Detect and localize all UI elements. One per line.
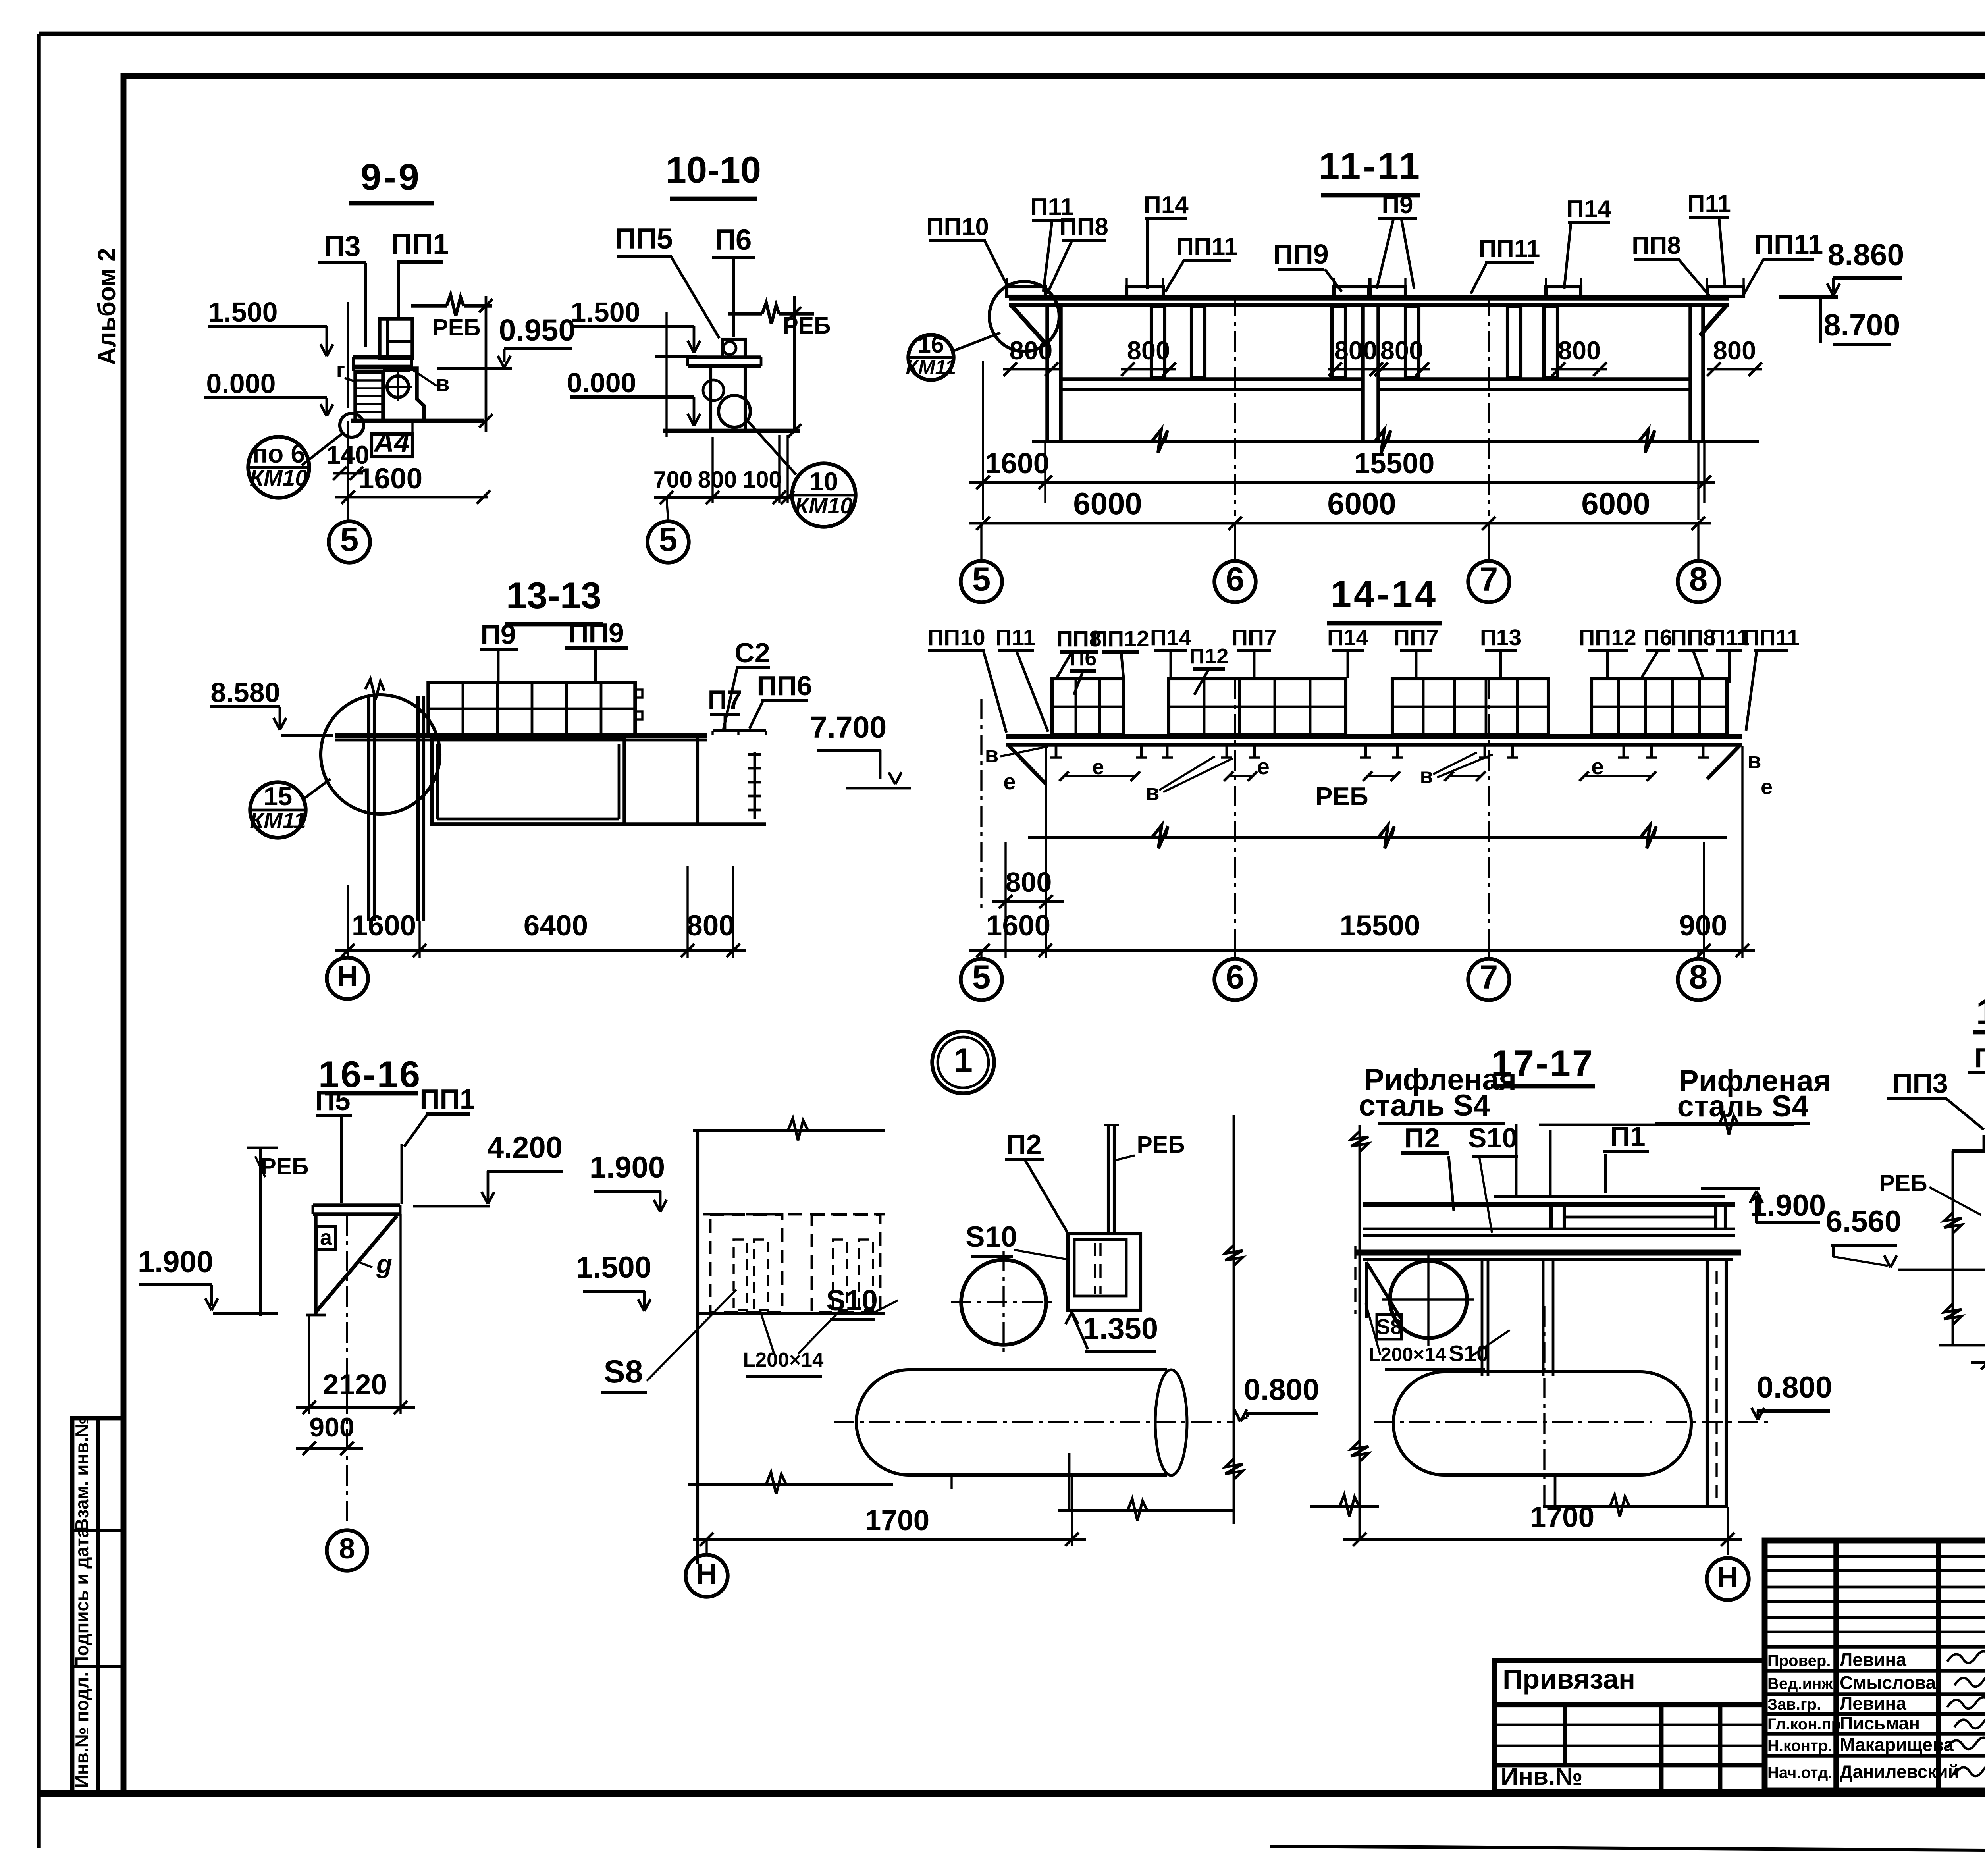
svg-text:1700: 1700: [865, 1504, 929, 1537]
svg-text:Н: Н: [696, 1558, 717, 1590]
svg-text:6000: 6000: [1073, 486, 1142, 521]
svg-text:КМ11: КМ11: [906, 356, 956, 378]
svg-text:16: 16: [918, 332, 944, 358]
svg-text:Смыслова: Смыслова: [1840, 1672, 1936, 1693]
svg-text:в: в: [436, 371, 449, 396]
svg-text:14-14: 14-14: [1331, 573, 1438, 615]
svg-text:6.560: 6.560: [1826, 1205, 1901, 1238]
svg-text:0.950: 0.950: [499, 313, 576, 347]
svg-text:1700: 1700: [1530, 1501, 1594, 1533]
svg-text:П13: П13: [1480, 625, 1521, 650]
svg-text:Инв.№ подл.: Инв.№ подл.: [71, 1672, 92, 1788]
svg-text:1.900: 1.900: [1750, 1189, 1826, 1222]
svg-text:КМ10: КМ10: [250, 465, 308, 491]
svg-text:13-13: 13-13: [506, 575, 601, 616]
svg-text:Письман: Письман: [1840, 1713, 1920, 1733]
svg-text:1.500: 1.500: [570, 297, 640, 328]
svg-text:6000: 6000: [1327, 486, 1396, 521]
svg-text:0.000: 0.000: [567, 367, 636, 398]
svg-text:по 6: по 6: [252, 439, 305, 468]
svg-text:П12: П12: [1189, 644, 1229, 668]
svg-text:ПП12: ПП12: [1091, 626, 1149, 652]
svg-text:1600: 1600: [986, 910, 1050, 942]
svg-text:П1: П1: [1610, 1121, 1645, 1152]
svg-text:10-10: 10-10: [666, 149, 761, 191]
svg-text:6400: 6400: [524, 910, 588, 942]
svg-text:Н: Н: [1717, 1561, 1738, 1593]
svg-text:800: 800: [1713, 336, 1756, 365]
svg-text:П9: П9: [480, 619, 516, 650]
svg-text:Н: Н: [337, 960, 358, 993]
svg-text:в: в: [1145, 780, 1159, 805]
svg-text:800: 800: [686, 910, 735, 942]
svg-text:РЕБ: РЕБ: [1879, 1170, 1927, 1196]
svg-text:0.800: 0.800: [1757, 1371, 1832, 1404]
svg-text:ПП9: ПП9: [1273, 239, 1329, 270]
svg-text:КМ10: КМ10: [795, 493, 853, 519]
svg-text:L200×14: L200×14: [743, 1348, 824, 1371]
svg-text:S10: S10: [1449, 1341, 1489, 1366]
svg-text:С2: С2: [734, 637, 770, 668]
svg-text:ПП7: ПП7: [1393, 625, 1439, 650]
svg-text:в: в: [1747, 748, 1761, 773]
svg-text:ПП10: ПП10: [926, 213, 989, 241]
svg-text:Гл.кон.пр: Гл.кон.пр: [1767, 1716, 1841, 1733]
svg-text:РЕБ: РЕБ: [1137, 1132, 1185, 1158]
svg-text:Зав.гр.: Зав.гр.: [1767, 1696, 1821, 1713]
svg-text:ПП1: ПП1: [391, 228, 449, 260]
svg-text:g: g: [376, 1249, 392, 1278]
svg-text:ПП8: ПП8: [1059, 213, 1108, 241]
svg-text:П3: П3: [1974, 1042, 1985, 1073]
svg-text:П9: П9: [1382, 191, 1413, 219]
svg-text:S10: S10: [966, 1221, 1017, 1253]
svg-text:0.000: 0.000: [206, 368, 276, 399]
svg-text:ПП3: ПП3: [1892, 1068, 1948, 1099]
svg-text:ПП10: ПП10: [927, 625, 985, 650]
svg-text:S8: S8: [603, 1354, 643, 1390]
svg-text:П3: П3: [324, 230, 360, 262]
svg-text:6: 6: [1226, 560, 1245, 598]
svg-text:800: 800: [1380, 336, 1423, 365]
svg-text:1.500: 1.500: [576, 1251, 651, 1284]
svg-text:700: 700: [653, 467, 692, 493]
svg-text:г: г: [336, 358, 345, 382]
svg-text:6: 6: [1226, 958, 1245, 995]
svg-text:а: а: [320, 1226, 332, 1249]
svg-text:Подпись и дата: Подпись и дата: [71, 1527, 92, 1669]
svg-text:0.800: 0.800: [1244, 1373, 1319, 1407]
svg-text:ПП6: ПП6: [757, 670, 812, 701]
svg-text:РЕБ: РЕБ: [1315, 782, 1368, 811]
svg-text:S10: S10: [1468, 1122, 1518, 1153]
svg-text:5: 5: [659, 521, 678, 558]
svg-text:7: 7: [1480, 560, 1498, 598]
svg-text:8.860: 8.860: [1828, 238, 1904, 272]
svg-text:ПП11: ПП11: [1479, 235, 1540, 262]
svg-text:в: в: [985, 742, 998, 767]
svg-text:4.200: 4.200: [487, 1131, 563, 1165]
svg-text:в: в: [1420, 764, 1433, 788]
svg-text:15: 15: [264, 782, 292, 811]
svg-text:900: 900: [309, 1412, 354, 1442]
svg-text:е: е: [1761, 775, 1773, 799]
svg-text:А4: А4: [373, 427, 409, 458]
svg-text:Макарищева: Макарищева: [1840, 1734, 1954, 1755]
svg-text:Левина: Левина: [1840, 1649, 1906, 1670]
svg-text:КМ11: КМ11: [250, 808, 306, 833]
svg-text:800: 800: [1558, 336, 1601, 365]
svg-text:800: 800: [1006, 867, 1052, 898]
svg-text:П6: П6: [715, 224, 752, 256]
svg-text:РЕБ: РЕБ: [432, 314, 480, 341]
svg-text:П14: П14: [1143, 191, 1189, 219]
svg-text:100: 100: [743, 467, 782, 493]
svg-text:15500: 15500: [1340, 910, 1420, 942]
svg-text:S10: S10: [826, 1284, 878, 1317]
svg-text:1600: 1600: [358, 463, 422, 495]
svg-text:1.500: 1.500: [208, 297, 278, 328]
svg-text:S8: S8: [1376, 1315, 1402, 1339]
svg-text:1600: 1600: [352, 910, 416, 942]
svg-text:ПП9: ПП9: [569, 617, 624, 648]
svg-text:П2: П2: [1404, 1122, 1440, 1153]
svg-text:10: 10: [809, 467, 838, 496]
svg-text:800: 800: [1127, 336, 1170, 365]
svg-text:П7: П7: [708, 685, 742, 715]
svg-text:Альбом 2: Альбом 2: [93, 248, 121, 365]
svg-text:8: 8: [339, 1533, 355, 1565]
svg-text:8: 8: [1689, 560, 1708, 598]
svg-text:800: 800: [1010, 336, 1052, 365]
svg-text:800: 800: [1334, 336, 1377, 365]
svg-text:2120: 2120: [323, 1369, 387, 1401]
svg-text:800: 800: [698, 467, 737, 493]
svg-text:сталь S4: сталь S4: [1677, 1089, 1809, 1123]
svg-text:8: 8: [1689, 958, 1708, 995]
svg-text:е: е: [1003, 769, 1016, 794]
svg-text:Инв.№: Инв.№: [1501, 1763, 1582, 1790]
svg-text:сталь S4: сталь S4: [1359, 1089, 1490, 1122]
svg-text:ПП11: ПП11: [1176, 233, 1238, 260]
svg-text:П6: П6: [1644, 625, 1673, 650]
svg-text:Левина: Левина: [1840, 1693, 1906, 1714]
svg-text:П11: П11: [1687, 190, 1731, 218]
svg-text:Провер.: Провер.: [1767, 1652, 1831, 1670]
svg-text:5: 5: [340, 521, 359, 558]
svg-text:Вед.инж.: Вед.инж.: [1767, 1675, 1837, 1693]
svg-text:ПП8: ПП8: [1632, 232, 1681, 259]
svg-text:Н.контр.: Н.контр.: [1767, 1737, 1832, 1755]
svg-text:ПП7: ПП7: [1231, 625, 1277, 650]
svg-text:L200×14: L200×14: [1369, 1344, 1446, 1365]
svg-text:5: 5: [972, 958, 991, 995]
svg-text:ПП1: ПП1: [420, 1084, 475, 1114]
svg-text:6000: 6000: [1581, 486, 1650, 521]
svg-text:ПП5: ПП5: [615, 223, 673, 255]
svg-text:Взам. инв.№: Взам. инв.№: [71, 1417, 92, 1531]
svg-text:П5: П5: [315, 1085, 350, 1116]
svg-text:Нач.отд.: Нач.отд.: [1767, 1764, 1832, 1782]
svg-text:1: 1: [954, 1041, 973, 1080]
svg-text:ПП12: ПП12: [1578, 625, 1636, 650]
svg-text:7: 7: [1480, 958, 1498, 995]
svg-text:е: е: [1257, 754, 1270, 779]
svg-text:5: 5: [972, 560, 991, 598]
svg-text:1.900: 1.900: [590, 1151, 665, 1184]
svg-text:1.350: 1.350: [1083, 1312, 1158, 1346]
svg-text:РЕБ: РЕБ: [260, 1153, 308, 1180]
svg-text:П14: П14: [1327, 625, 1369, 650]
svg-text:11-11: 11-11: [1319, 145, 1422, 187]
svg-text:Привязан: Привязан: [1503, 1664, 1635, 1695]
svg-text:1.900: 1.900: [138, 1245, 213, 1279]
svg-text:Данилевский: Данилевский: [1840, 1761, 1959, 1782]
svg-text:РЕБ: РЕБ: [782, 312, 831, 339]
svg-text:П2: П2: [1006, 1129, 1041, 1160]
svg-text:9-9: 9-9: [360, 156, 422, 198]
svg-text:ПП11: ПП11: [1754, 229, 1823, 260]
svg-text:П14: П14: [1150, 625, 1192, 650]
svg-text:7.700: 7.700: [810, 710, 887, 744]
svg-text:П14: П14: [1566, 195, 1611, 223]
svg-text:15500: 15500: [1354, 447, 1435, 480]
svg-text:1600: 1600: [985, 447, 1049, 480]
svg-text:8.700: 8.700: [1824, 308, 1900, 342]
svg-text:18-18: 18-18: [1976, 992, 1985, 1032]
svg-text:ПП11: ПП11: [1743, 625, 1800, 650]
svg-text:8.580: 8.580: [210, 677, 280, 708]
svg-text:П11: П11: [995, 625, 1035, 650]
